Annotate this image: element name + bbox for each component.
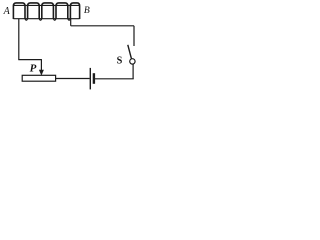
inductor coil AB: bottom connecting arc 1 <box>25 19 28 21</box>
wire: right side down to switch stub <box>133 26 135 46</box>
inductor coil AB: core top line <box>13 4 79 6</box>
inductor coil AB: bottom connecting arc 3 <box>53 19 56 21</box>
wire: coil right lead down <box>70 19 72 26</box>
wire: from switch circle down <box>132 64 134 79</box>
svg-text:A: A <box>3 6 11 17</box>
battery: short thick plate (negative) <box>93 73 95 84</box>
svg-text:S: S <box>117 55 123 66</box>
svg-text:P: P <box>30 63 37 75</box>
inductor coil AB: winding loop 1 <box>13 3 25 19</box>
wire: top right horizontal <box>71 25 134 27</box>
inductor coil AB: bottom connecting arc 4 <box>68 19 71 21</box>
rheostat P: wiper arrowhead <box>39 70 44 76</box>
wire: battery to rheostat <box>56 78 90 80</box>
inductor coil AB: winding loop 3 <box>42 3 54 19</box>
inductor coil AB: winding loop 2 <box>28 3 40 19</box>
wire: left lead from coil down <box>18 19 20 60</box>
battery: long plate (positive) <box>89 68 91 90</box>
inductor coil AB: bottom connecting arc 2 <box>39 19 42 21</box>
wire: wiper arrow shaft <box>40 59 42 70</box>
inductor coil AB: winding loop 4 <box>56 3 68 19</box>
inductor coil AB: winding loop 5 <box>70 3 79 19</box>
inductor coil AB: core bottom line <box>13 18 79 20</box>
switch S: blade <box>128 45 132 59</box>
wire: jog right to rheostat wiper <box>18 59 41 61</box>
rheostat P: resistor body <box>22 75 55 81</box>
svg-text:B: B <box>84 5 90 16</box>
switch S: lower terminal circle <box>130 59 135 64</box>
wire: bottom right horizontal to battery <box>95 78 134 80</box>
